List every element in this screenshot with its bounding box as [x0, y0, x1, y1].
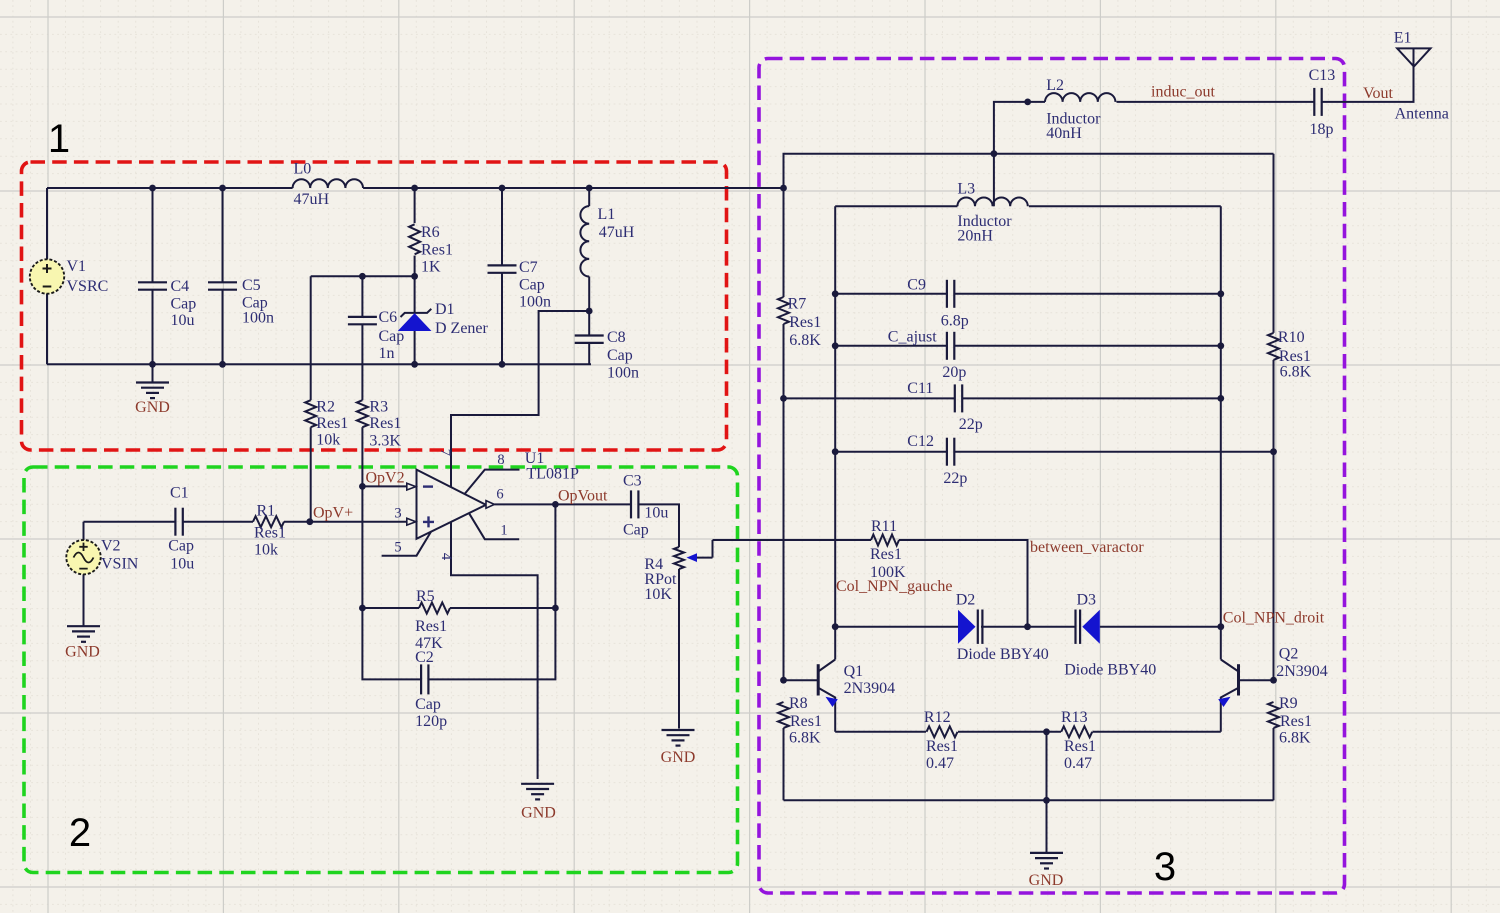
svg-text:18p: 18p: [1310, 121, 1334, 138]
svg-text:10u: 10u: [171, 312, 195, 329]
svg-text:100n: 100n: [519, 294, 551, 311]
svg-text:Res1: Res1: [790, 713, 822, 730]
svg-text:1: 1: [500, 523, 507, 539]
svg-text:C9: C9: [907, 277, 926, 294]
svg-text:E1: E1: [1394, 30, 1412, 47]
capacitor C4: [152, 188, 154, 283]
svg-text:C6: C6: [379, 309, 398, 326]
svg-text:3.3K: 3.3K: [369, 433, 401, 450]
wire inner right column: [1220, 206, 1222, 659]
svg-text:OpVout: OpVout: [558, 488, 608, 505]
wire C13 to antenna: [1322, 67, 1414, 102]
svg-text:Cap: Cap: [415, 696, 441, 713]
transistor Q2: [1237, 664, 1240, 695]
svg-text:GND: GND: [1029, 872, 1064, 889]
opamp pin 6 output wire: [494, 503, 631, 505]
svg-text:10u: 10u: [644, 505, 668, 522]
svg-text:Vout: Vout: [1363, 85, 1393, 102]
capacitor C1: [174, 508, 176, 536]
wire input row: [84, 521, 176, 523]
svg-text:GND: GND: [65, 644, 100, 661]
svg-text:D2: D2: [956, 592, 976, 609]
resistor R6: [414, 188, 416, 223]
svg-text:C_ajust: C_ajust: [888, 329, 937, 346]
capacitor C5: [222, 188, 224, 283]
ground under R4: [662, 729, 695, 731]
svg-text:L2: L2: [1046, 77, 1064, 94]
svg-text:U1: U1: [525, 450, 545, 467]
svg-text:between_varactor: between_varactor: [1030, 539, 1144, 556]
capacitor C_ajust row: [835, 345, 947, 347]
svg-text:VSIN: VSIN: [101, 556, 139, 573]
svg-text:22p: 22p: [943, 470, 967, 487]
capacitor C13: [1313, 88, 1315, 116]
resistor R3: [361, 364, 363, 400]
voltage source V2: [83, 522, 85, 541]
svg-text:Q1: Q1: [844, 663, 864, 680]
svg-text:1: 1: [48, 117, 70, 161]
svg-text:C5: C5: [242, 277, 261, 294]
svg-text:Cap: Cap: [623, 522, 649, 539]
wire varactor row: [835, 626, 958, 628]
svg-text:2: 2: [69, 811, 91, 855]
svg-text:Cap: Cap: [519, 277, 545, 294]
svg-text:R13: R13: [1061, 709, 1088, 726]
svg-text:V1: V1: [67, 258, 87, 275]
svg-text:L3: L3: [957, 181, 975, 198]
svg-text:R7: R7: [788, 296, 807, 313]
capacitor C3: [630, 490, 632, 518]
svg-text:C11: C11: [907, 380, 933, 397]
svg-text:R8: R8: [789, 695, 808, 712]
svg-text:OpV2: OpV2: [366, 470, 405, 487]
svg-text:Cap: Cap: [607, 347, 633, 364]
svg-text:D3: D3: [1077, 592, 1097, 609]
opamp pin 4 wire to ground: [451, 522, 538, 779]
resistor R12: [927, 726, 958, 737]
svg-text:100n: 100n: [242, 310, 274, 327]
opamp pin 1 stub: [469, 513, 519, 539]
wire center tap to bottom rail: [1046, 732, 1048, 801]
capacitor C2 feedback: [362, 608, 421, 679]
svg-text:Cap: Cap: [168, 538, 194, 555]
varactor diode D3: [1082, 610, 1100, 644]
svg-text:Res1: Res1: [870, 546, 902, 563]
wire rail to R7 column: [780, 185, 787, 192]
svg-text:47uH: 47uH: [294, 191, 330, 208]
svg-text:R12: R12: [924, 709, 951, 726]
varactor diode D2: [958, 610, 976, 644]
svg-text:Q2: Q2: [1279, 646, 1299, 663]
ground at opamp pin4: [521, 783, 554, 785]
region box 3 (purple dashed): [759, 59, 1345, 894]
svg-text:6.8K: 6.8K: [1279, 730, 1311, 747]
svg-text:Res1: Res1: [1064, 738, 1096, 755]
capacitor C12 row: [835, 451, 947, 453]
svg-text:3: 3: [394, 506, 401, 522]
inductor L1: [588, 188, 590, 206]
svg-text:0.47: 0.47: [1064, 755, 1092, 772]
resistor R8: [778, 702, 789, 728]
svg-text:Diode BBY40: Diode BBY40: [957, 646, 1049, 663]
wire supply to opamp pin7: [451, 311, 589, 487]
svg-text:10K: 10K: [644, 586, 672, 603]
svg-text:4: 4: [438, 553, 454, 561]
svg-text:47uH: 47uH: [599, 224, 635, 241]
svg-text:40nH: 40nH: [1046, 125, 1082, 142]
svg-text:C4: C4: [171, 278, 190, 295]
wire L2 to C13: [1117, 101, 1315, 103]
capacitor C7: [501, 188, 503, 266]
svg-text:Res1: Res1: [316, 415, 348, 432]
svg-text:R3: R3: [369, 399, 388, 416]
svg-text:C1: C1: [170, 485, 189, 502]
svg-text:induc_out: induc_out: [1151, 84, 1216, 101]
svg-text:TL081P: TL081P: [526, 466, 579, 483]
svg-text:R6: R6: [421, 224, 440, 241]
ground under C4: [152, 364, 154, 382]
resistor R2: [310, 276, 312, 400]
svg-text:100n: 100n: [607, 365, 639, 382]
svg-text:C2: C2: [415, 649, 434, 666]
svg-text:OpV+: OpV+: [313, 505, 353, 522]
ground under V2: [67, 625, 100, 627]
svg-text:Res1: Res1: [254, 525, 286, 542]
svg-text:8: 8: [497, 452, 504, 468]
svg-text:C13: C13: [1309, 67, 1336, 84]
svg-text:VSRC: VSRC: [67, 278, 109, 295]
capacitor C11 row: [784, 397, 955, 399]
svg-text:Res1: Res1: [1279, 348, 1311, 365]
wire L2 feed: [994, 102, 1045, 154]
antenna E1: [1397, 48, 1430, 66]
svg-text:Res1: Res1: [926, 738, 958, 755]
svg-text:6.8K: 6.8K: [789, 730, 821, 747]
transistor Q1: [817, 664, 820, 695]
svg-text:C7: C7: [519, 259, 538, 276]
svg-text:1n: 1n: [379, 345, 395, 362]
svg-text:5: 5: [394, 540, 401, 556]
svg-text:R5: R5: [416, 588, 435, 605]
zener diode D1: [414, 276, 416, 313]
svg-text:Cap: Cap: [171, 296, 197, 313]
svg-text:Res1: Res1: [789, 314, 821, 331]
wire upper rail region3: [784, 154, 1274, 188]
svg-text:Diode BBY40: Diode BBY40: [1064, 662, 1156, 679]
svg-text:D1: D1: [435, 301, 455, 318]
svg-text:6.8p: 6.8p: [941, 313, 969, 330]
svg-text:Antenna: Antenna: [1395, 106, 1449, 123]
op-amp U1: [417, 470, 487, 539]
svg-text:20nH: 20nH: [957, 228, 993, 245]
region box 2 (green dashed): [24, 467, 738, 873]
svg-text:Col_NPN_droit: Col_NPN_droit: [1223, 610, 1325, 627]
wire L3 row: [835, 205, 957, 207]
resistor R10: [1268, 333, 1279, 360]
svg-text:C12: C12: [907, 433, 934, 450]
svg-text:R11: R11: [871, 518, 897, 535]
svg-text:22p: 22p: [959, 416, 983, 433]
wire bottom rail region3: [784, 799, 1274, 801]
svg-text:D Zener: D Zener: [435, 320, 489, 337]
svg-text:R9: R9: [1279, 695, 1298, 712]
svg-text:GND: GND: [661, 749, 696, 766]
svg-text:Col_NPN_gauche: Col_NPN_gauche: [836, 578, 952, 595]
wire bottom rail region1: [47, 363, 591, 365]
resistor R9: [1268, 702, 1279, 728]
resistor R5 feedback: [361, 486, 363, 608]
svg-text:1K: 1K: [421, 259, 441, 276]
wire L3 center tap: [993, 154, 995, 207]
svg-text:Res1: Res1: [1280, 713, 1312, 730]
svg-text:10k: 10k: [254, 542, 278, 559]
resistor R7: [778, 297, 789, 324]
svg-text:GND: GND: [135, 399, 170, 416]
svg-text:Res1: Res1: [421, 242, 453, 259]
opamp pin 5 stub: [382, 531, 432, 555]
resistor R11: [713, 539, 872, 541]
opamp pin 8 stub: [465, 470, 520, 494]
wire OpV2 row: [362, 485, 406, 487]
svg-text:C3: C3: [623, 473, 642, 490]
svg-text:GND: GND: [521, 805, 556, 822]
wire node row under R6: [311, 275, 415, 277]
svg-text:7: 7: [437, 449, 453, 456]
resistor R1: [253, 516, 284, 527]
inductor L0: [293, 179, 363, 188]
svg-text:R2: R2: [316, 399, 335, 416]
voltage source V1: [46, 188, 48, 260]
wire top rail region1: [47, 187, 293, 189]
wire emitter rail: [835, 731, 926, 733]
svg-text:20p: 20p: [942, 364, 966, 381]
svg-text:10k: 10k: [316, 432, 340, 449]
svg-text:C8: C8: [607, 329, 626, 346]
capacitor C9 row: [835, 293, 947, 295]
inductor L3: [957, 198, 1027, 207]
svg-text:6: 6: [496, 487, 503, 503]
potentiometer R4: [674, 547, 684, 569]
svg-text:Res1: Res1: [369, 415, 401, 432]
wire inner left column: [834, 206, 836, 659]
svg-text:2N3904: 2N3904: [844, 680, 896, 697]
svg-text:V2: V2: [101, 538, 121, 555]
svg-text:6.8K: 6.8K: [1280, 364, 1312, 381]
svg-text:L1: L1: [598, 206, 616, 223]
svg-text:10u: 10u: [170, 556, 194, 573]
resistor R13: [1061, 726, 1092, 737]
capacitor C8: [588, 311, 590, 336]
region box 1 (red dashed): [22, 162, 727, 450]
svg-text:3: 3: [1154, 845, 1176, 889]
svg-text:L0: L0: [294, 161, 312, 178]
svg-text:R10: R10: [1278, 329, 1305, 346]
ground region3: [1046, 800, 1048, 853]
svg-text:2N3904: 2N3904: [1276, 663, 1328, 680]
svg-text:0.47: 0.47: [926, 755, 954, 772]
inductor L2: [1045, 93, 1115, 102]
svg-text:R1: R1: [257, 503, 276, 520]
svg-text:6.8K: 6.8K: [789, 332, 821, 349]
svg-text:Res1: Res1: [415, 618, 447, 635]
svg-text:120p: 120p: [415, 713, 447, 730]
capacitor C6: [361, 276, 363, 317]
